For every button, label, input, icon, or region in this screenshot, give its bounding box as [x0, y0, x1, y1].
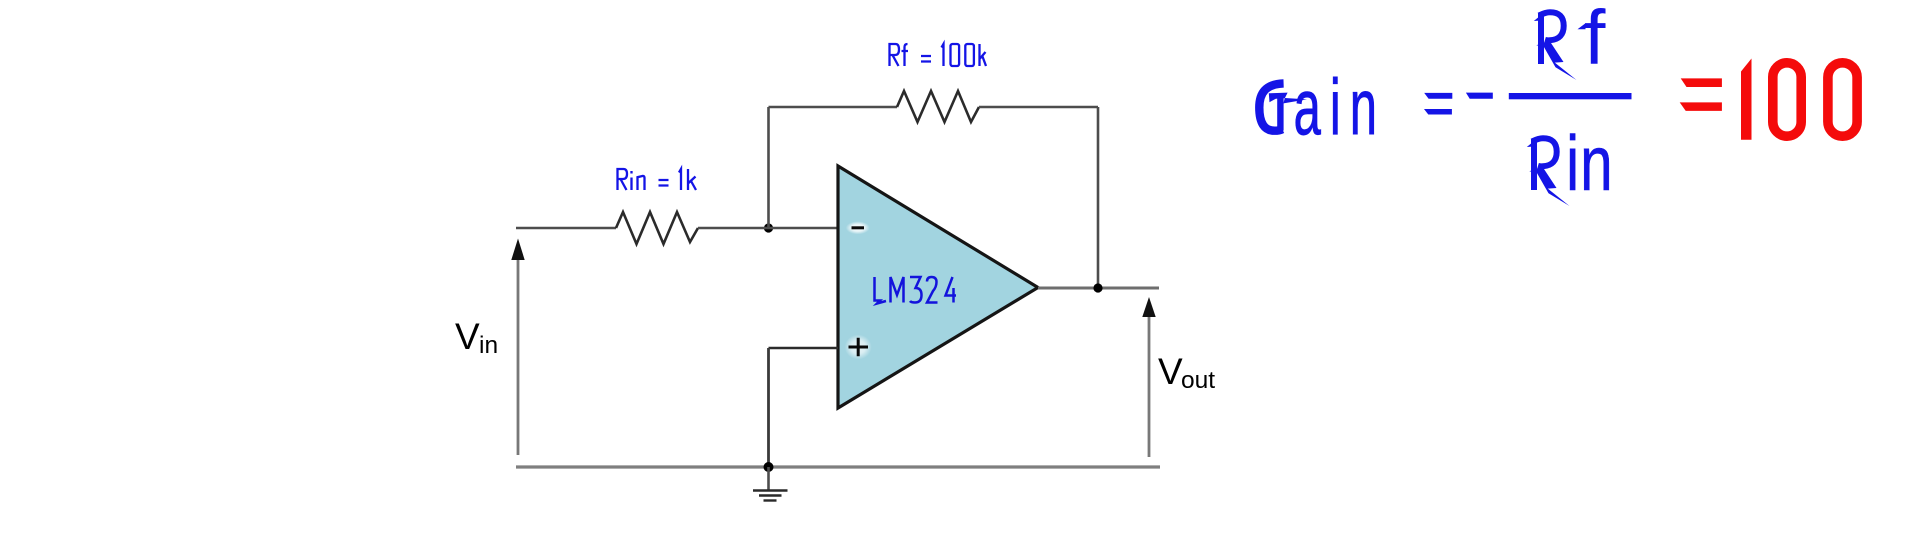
svg-text:in: in [479, 332, 498, 359]
wire: feedback right vertical [1097, 107, 1100, 288]
denominator Rin [1527, 138, 1570, 206]
junction dot at ground node [764, 462, 774, 472]
svg-text:f: f [1584, 0, 1606, 81]
ground symbol [753, 467, 788, 501]
wire: op-amp output [1038, 287, 1159, 290]
op-amp plus sign [845, 335, 872, 360]
wire: plus input vertical to ground rail [767, 348, 770, 467]
op-amp U1 triangle [838, 166, 1038, 408]
wire: plus input horizontal [769, 347, 839, 350]
op-amp label LM324 [875, 277, 957, 304]
svg-text:V: V [1158, 351, 1183, 392]
formula: equals minus [1424, 93, 1452, 99]
svg-text:out: out [1181, 367, 1215, 394]
red 100 [1741, 59, 1752, 140]
ground rail (bottom) [516, 465, 1160, 468]
wire: feedback top left lead [769, 106, 898, 109]
resistor Rf [897, 91, 979, 122]
wire: Vin top wire to Rin [516, 227, 616, 230]
label Rin = 1k [618, 169, 697, 190]
numerator Rf [1534, 12, 1577, 80]
svg-text:ain: ain [1294, 63, 1386, 151]
svg-text:V: V [455, 316, 480, 357]
junction dot at inverting input node [764, 223, 773, 232]
G lightning crossbar [1269, 93, 1288, 103]
wire: feedback top right lead [979, 106, 1098, 109]
formula: word Gain [1259, 63, 1386, 151]
Vin measurement arrow [517, 259, 520, 455]
Vout measurement arrow [1148, 316, 1151, 457]
junction dot at output node [1093, 283, 1102, 292]
G arc [1259, 83, 1283, 130]
op-amp minus sign [846, 221, 870, 234]
label Rf = 100k [890, 44, 987, 66]
red equals [1681, 78, 1722, 87]
resistor Rin [616, 212, 698, 244]
svg-text:in: in [1566, 120, 1613, 207]
G chin stem [1277, 96, 1283, 131]
wire: node to op-amp minus input [698, 227, 838, 230]
wire: feedback left vertical [767, 107, 770, 228]
fraction bar [1509, 93, 1632, 99]
